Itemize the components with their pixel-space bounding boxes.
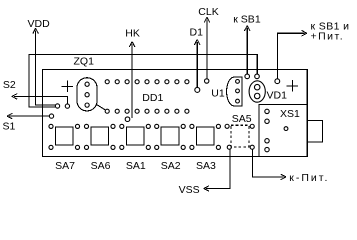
node pad к SB1 <box>245 74 250 79</box>
polarity mark + right <box>287 80 298 91</box>
svg-text:SA7: SA7 <box>55 160 75 172</box>
pin hole U1-3 <box>236 99 240 103</box>
button SA7 <box>56 127 74 145</box>
svg-text:к-Пит.: к-Пит. <box>289 172 329 184</box>
wire ZQ1 case lead <box>96 104 105 110</box>
wire D1 <box>196 42 198 87</box>
wire jumper A (pad to top rail to left side) <box>29 55 257 107</box>
wire к-Пит. <box>252 149 283 177</box>
svg-text:S1: S1 <box>3 120 16 132</box>
node pad S1 <box>49 114 53 118</box>
node pad XS1 center <box>284 127 288 131</box>
connector XS1 key tab <box>307 120 322 142</box>
node pad S2 <box>65 104 69 108</box>
svg-text:D1: D1 <box>190 27 204 39</box>
wire к SB1 и +Пит. <box>277 33 304 79</box>
svg-text:к SB1: к SB1 <box>233 14 261 26</box>
button SA2 <box>161 127 179 145</box>
svg-text:+Пит.: +Пит. <box>311 31 345 43</box>
pin hole U1-1 <box>236 80 240 84</box>
pin hole XS1-1 <box>265 109 269 113</box>
pin hole ZQ1-1 <box>85 82 89 86</box>
svg-text:SA5: SA5 <box>232 113 252 125</box>
svg-text:ZQ1: ZQ1 <box>74 56 95 68</box>
svg-text:SA3: SA3 <box>196 160 216 172</box>
svg-text:SA2: SA2 <box>161 160 181 172</box>
button SA6 <box>91 127 109 145</box>
button SA1 <box>126 127 144 145</box>
connector XS1 <box>259 105 307 157</box>
svg-text:S2: S2 <box>3 79 16 91</box>
svg-text:CLK: CLK <box>198 6 218 18</box>
wire CLK <box>206 20 208 79</box>
pin hole XS1-4 <box>265 147 269 151</box>
polarity mark + left <box>62 81 73 92</box>
node pad CLK <box>205 79 209 83</box>
pin row DD1 bottom <box>105 109 189 113</box>
node pad VDD/jumper <box>55 104 59 108</box>
svg-text:SA1: SA1 <box>126 160 146 172</box>
svg-text:VSS: VSS <box>179 184 200 196</box>
svg-text:DD1: DD1 <box>142 92 163 104</box>
svg-text:SA6: SA6 <box>91 160 111 172</box>
pin row DD1 top <box>105 80 189 84</box>
wire HK <box>131 44 133 118</box>
svg-text:XS1: XS1 <box>280 108 300 120</box>
wire S1 <box>9 115 49 117</box>
pin hole U1-2 <box>236 89 240 93</box>
pin hole XS1-3 <box>265 139 269 143</box>
pin hole ZQ1-3 <box>85 103 89 107</box>
board outline <box>42 69 307 156</box>
node pad HK <box>125 117 130 122</box>
svg-text:VD1: VD1 <box>267 89 288 101</box>
node pad D1 <box>195 87 200 92</box>
svg-text:HK: HK <box>125 28 140 40</box>
pin hole VD1 anode <box>254 84 260 90</box>
svg-text:VDD: VDD <box>28 18 51 30</box>
wire VDD <box>36 31 56 105</box>
svg-text:U1: U1 <box>211 88 225 100</box>
node pad +Пит <box>275 79 280 84</box>
pin hole XS1-2 <box>265 119 269 123</box>
pin hole ZQ1-2 <box>85 93 89 97</box>
pin hole VD1 cathode <box>254 93 260 99</box>
button SA3 <box>196 127 214 145</box>
wire к SB1 <box>246 28 248 74</box>
node pad jumper A end <box>255 74 260 79</box>
wire S2 <box>14 96 67 103</box>
wire VSS <box>206 150 230 189</box>
